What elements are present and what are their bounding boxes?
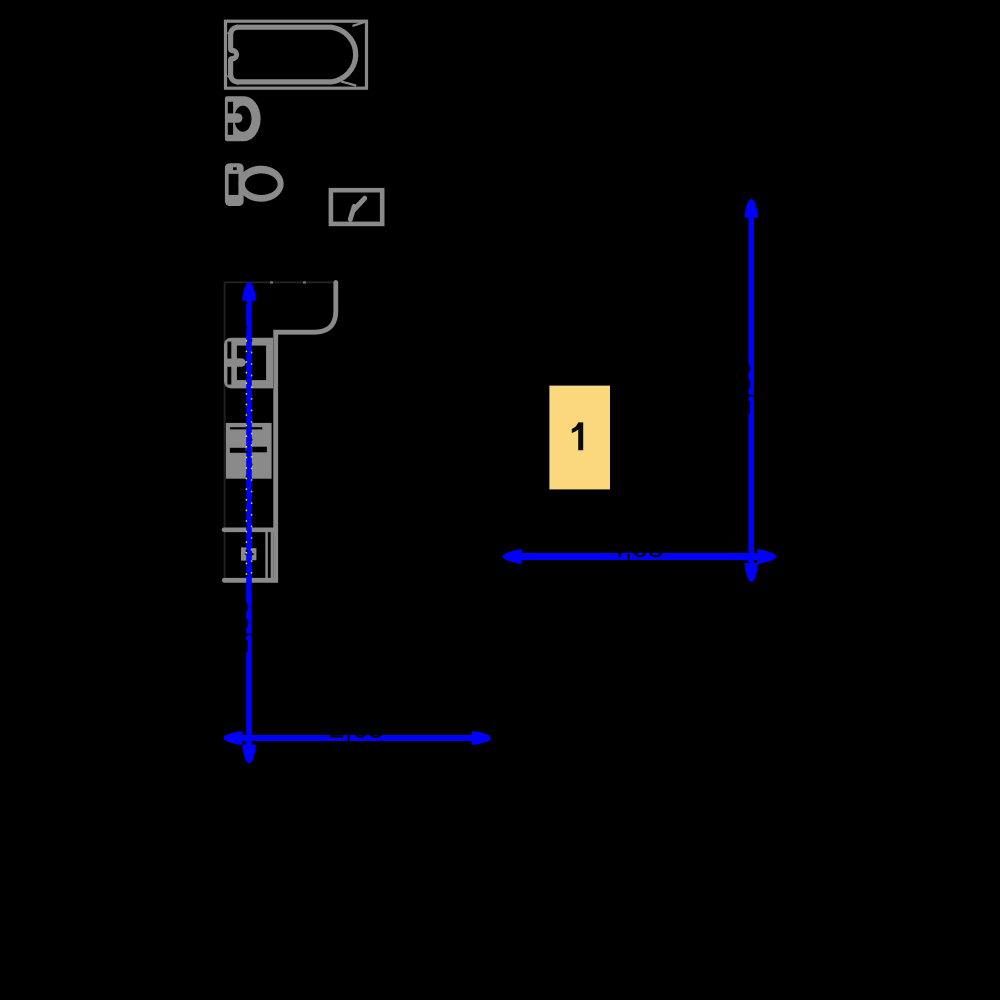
yellow guide dashes on kitchen dimension line	[245, 340, 247, 578]
bathtub corner tick top-left	[228, 25, 239, 34]
wall line left of kitchen (faint)	[224, 282, 226, 581]
electric panel box	[331, 190, 382, 224]
bottom dimension arrow right	[472, 731, 491, 745]
right horizontal dimension line	[519, 553, 759, 560]
dishwasher side line	[265, 532, 268, 578]
kitchen sink unit	[224, 338, 273, 389]
bathtub inner basin	[231, 27, 356, 82]
right vertical dimension line	[748, 215, 754, 566]
stove top groove	[230, 427, 262, 429]
toilet cistern button	[233, 167, 237, 170]
kitchen dimension arrow up	[242, 282, 256, 301]
right vertical arrow down	[744, 563, 758, 582]
dishwasher top line	[224, 527, 273, 532]
bathtub corner tick top-right	[353, 22, 365, 26]
svg-text:2,63: 2,63	[329, 712, 384, 743]
wall hinge dot B	[303, 281, 306, 283]
wash basin bowl	[234, 106, 251, 132]
dishwasher bowtie left	[241, 547, 248, 560]
kitchen counter edge with door-return arc	[224, 283, 335, 581]
svg-text:4,08: 4,08	[609, 532, 664, 563]
kitchen sink tap	[231, 358, 246, 366]
toilet bowl inner	[245, 173, 278, 195]
kitchen sink basin	[237, 346, 266, 381]
bathtub corner tick bottom-right	[341, 81, 356, 85]
wash basin slot bottom	[228, 123, 233, 135]
wall hinge dot A	[270, 281, 273, 283]
wash basin slot top	[228, 102, 233, 114]
wash basin body	[225, 96, 261, 141]
svg-text:2,36: 2,36	[725, 361, 756, 416]
dishwasher bowtie right	[251, 548, 257, 560]
stove body	[226, 423, 272, 479]
toilet cistern hole	[229, 174, 239, 195]
wash basin tap	[229, 113, 243, 123]
right horizontal arrow left	[502, 549, 521, 564]
bottom dimension label (dark)	[329, 712, 384, 743]
stove handle right	[252, 447, 267, 453]
svg-text:1,56: 1,56	[223, 600, 254, 655]
kitchen vertical dimension line	[246, 298, 252, 748]
toilet bowl ring	[238, 166, 283, 202]
bathtub corner tick bottom-left	[228, 76, 239, 85]
kitchen sink slot top	[227, 342, 231, 359]
dishwasher side line 2	[271, 532, 274, 578]
bottom horizontal dimension line	[240, 735, 474, 741]
right horizontal arrow right	[757, 549, 776, 564]
stove handle left	[230, 448, 246, 453]
right vertical arrow up	[744, 199, 758, 218]
notch overlay kitchen vertical	[245, 302, 247, 592]
unit number box	[549, 386, 610, 490]
bottom dimension arrow left	[223, 731, 242, 745]
unit number text	[572, 422, 583, 450]
kitchen sink slot bottom	[227, 367, 231, 385]
bathtub outer rim	[226, 21, 367, 88]
toilet cistern	[225, 163, 244, 206]
right vertical label (rotated, dark)	[725, 361, 756, 416]
electric panel flash stroke upper	[354, 198, 365, 209]
kitchen dimension label (rotated, dark)	[223, 600, 254, 655]
right horizontal label (dark)	[609, 532, 664, 563]
electric panel flash stroke lower	[350, 207, 354, 220]
wall line top of kitchen (faint)	[224, 281, 336, 283]
kitchen dimension arrow down	[242, 745, 256, 764]
